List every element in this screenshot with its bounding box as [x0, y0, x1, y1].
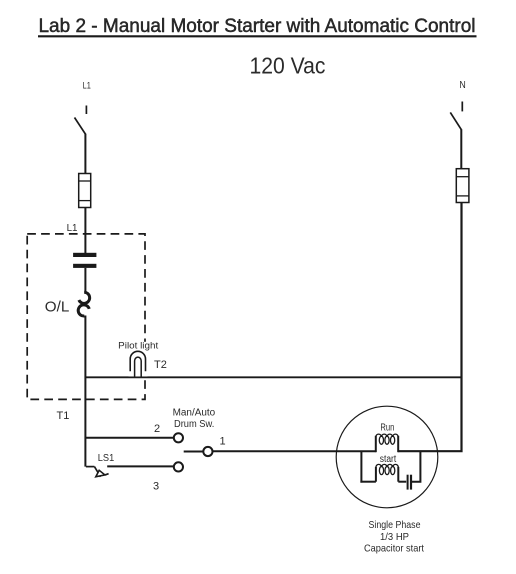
drum switch terminal 1 — [203, 447, 212, 456]
svg-text:Drum Sw.: Drum Sw. — [174, 419, 214, 430]
label Man/Auto Drum Sw. — [173, 408, 216, 431]
wire pilot light rung (T2 line) — [85, 376, 461, 378]
wire to drum switch terminal 2 — [85, 437, 173, 439]
svg-text:T1: T1 — [57, 410, 70, 422]
svg-text:Run: Run — [380, 422, 394, 433]
svg-text:LS1: LS1 — [98, 452, 115, 464]
starter contact bars — [73, 253, 96, 268]
wire fuse F1 to starter contact — [84, 208, 86, 254]
drum switch terminal 2 — [174, 433, 183, 442]
wire capacitor to run node — [412, 451, 420, 482]
svg-text:Man/Auto: Man/Auto — [173, 408, 216, 419]
label Single Phase / 1/3 HP / Capacitor start — [364, 519, 424, 555]
drum switch terminal 3 — [174, 462, 183, 471]
svg-text:T2: T2 — [154, 359, 167, 371]
svg-text:1: 1 — [220, 436, 226, 448]
run winding — [376, 434, 398, 452]
wire LS1 to drum switch terminal 3 — [107, 465, 174, 467]
wire switch to fuse F2 — [460, 129, 462, 169]
svg-text:start: start — [380, 454, 397, 465]
svg-text:O/L: O/L — [45, 298, 70, 315]
svg-text:Pilot light: Pilot light — [118, 340, 158, 351]
title — [38, 16, 477, 37]
svg-text:L1: L1 — [67, 222, 78, 234]
svg-text:3: 3 — [153, 481, 159, 493]
fuse F2 — [456, 169, 469, 203]
switch SW-L1 — [75, 106, 87, 135]
svg-text:2: 2 — [154, 423, 160, 435]
motor enclosure circle M1 — [336, 406, 438, 508]
wire overload down to LS1 — [84, 316, 86, 467]
wire contact to overload — [84, 268, 86, 293]
svg-text:L1: L1 — [83, 81, 91, 92]
svg-text:Single Phase: Single Phase — [369, 519, 421, 531]
svg-text:Lab 2 - Manual Motor Starter w: Lab 2 - Manual Motor Starter with Automa… — [39, 16, 476, 37]
svg-text:120 Vac: 120 Vac — [250, 53, 326, 79]
wire switch to fuse F1 — [84, 134, 86, 174]
limit switch LS1 — [86, 467, 109, 477]
start winding branch — [360, 451, 406, 482]
pilot light PL1 — [129, 342, 148, 377]
wire terminal 1 to motor — [213, 450, 376, 452]
svg-text:1/3 HP: 1/3 HP — [380, 531, 409, 543]
overload heater O/L — [45, 292, 90, 316]
switch SW-N — [450, 102, 462, 130]
capacitor C1 (start capacitor) — [408, 475, 411, 490]
fuse F1 — [79, 174, 91, 208]
manual starter enclosure (dashed box) — [27, 234, 145, 400]
svg-text:Capacitor start: Capacitor start — [364, 543, 424, 555]
svg-text:N: N — [459, 80, 465, 91]
wire N line down to motor — [398, 203, 461, 452]
drum switch blade — [184, 451, 204, 453]
